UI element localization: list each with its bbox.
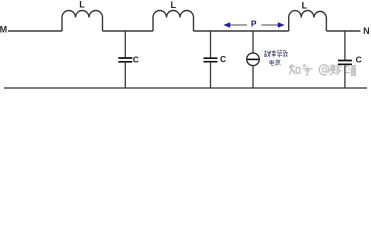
left arrow shaft bbox=[229, 24, 247, 26]
svg-text:C: C bbox=[133, 54, 139, 64]
capacitor C2 bottom lead bbox=[210, 63, 212, 88]
right arrow shaft bbox=[261, 24, 278, 26]
等 bbox=[277, 50, 282, 57]
capacitor C2 plates bbox=[204, 58, 218, 62]
wire M to L1 bbox=[8, 30, 62, 32]
靖 bbox=[345, 64, 356, 75]
bottom rail bbox=[4, 87, 367, 89]
@ bbox=[319, 65, 329, 75]
效 bbox=[283, 50, 288, 57]
wire L3 to N bbox=[326, 30, 360, 32]
source U1 (fault equivalent source) circle bbox=[247, 53, 260, 66]
source top lead bbox=[252, 31, 254, 53]
capacitor C3 bottom lead bbox=[344, 65, 346, 88]
svg-text:C: C bbox=[356, 55, 362, 65]
right arrowhead bbox=[278, 22, 285, 28]
capacitor C1 top lead bbox=[124, 31, 126, 57]
source value label line2: 电源 (drawn strokes) bbox=[270, 60, 281, 66]
svg-text:N: N bbox=[363, 26, 370, 36]
capacitor C2 top lead bbox=[210, 31, 212, 57]
故 bbox=[264, 50, 270, 57]
capacitor C3 top lead bbox=[344, 31, 346, 60]
wire L1 to L2 bbox=[103, 30, 154, 32]
capacitor C1 bottom lead bbox=[124, 63, 126, 88]
inductor L2 bbox=[153, 11, 194, 32]
郭 bbox=[330, 64, 341, 75]
知 bbox=[289, 64, 300, 75]
svg-text:M: M bbox=[0, 25, 7, 35]
svg-text:L: L bbox=[171, 0, 177, 10]
capacitor C3 plates bbox=[338, 61, 352, 65]
源 bbox=[275, 60, 281, 65]
inductor L1 bbox=[62, 11, 103, 32]
watermark: 知乎 @郭靖 (drawn strokes, light gray) bbox=[289, 64, 356, 75]
svg-text:C: C bbox=[220, 54, 226, 64]
inductor L3 bbox=[289, 10, 327, 31]
电 bbox=[270, 60, 274, 66]
障 bbox=[270, 50, 276, 57]
乎 bbox=[303, 64, 313, 75]
svg-text:L: L bbox=[79, 0, 85, 10]
capacitor C1 plates bbox=[118, 58, 132, 62]
svg-text:L: L bbox=[302, 0, 308, 10]
source U1 inner bar bbox=[247, 58, 258, 60]
source value label line1: 故障等效 (drawn strokes) bbox=[264, 50, 287, 57]
left arrowhead bbox=[223, 22, 230, 28]
source bottom lead bbox=[252, 66, 254, 88]
svg-text:P: P bbox=[251, 19, 257, 29]
wire L2 to L3 bbox=[194, 30, 289, 32]
